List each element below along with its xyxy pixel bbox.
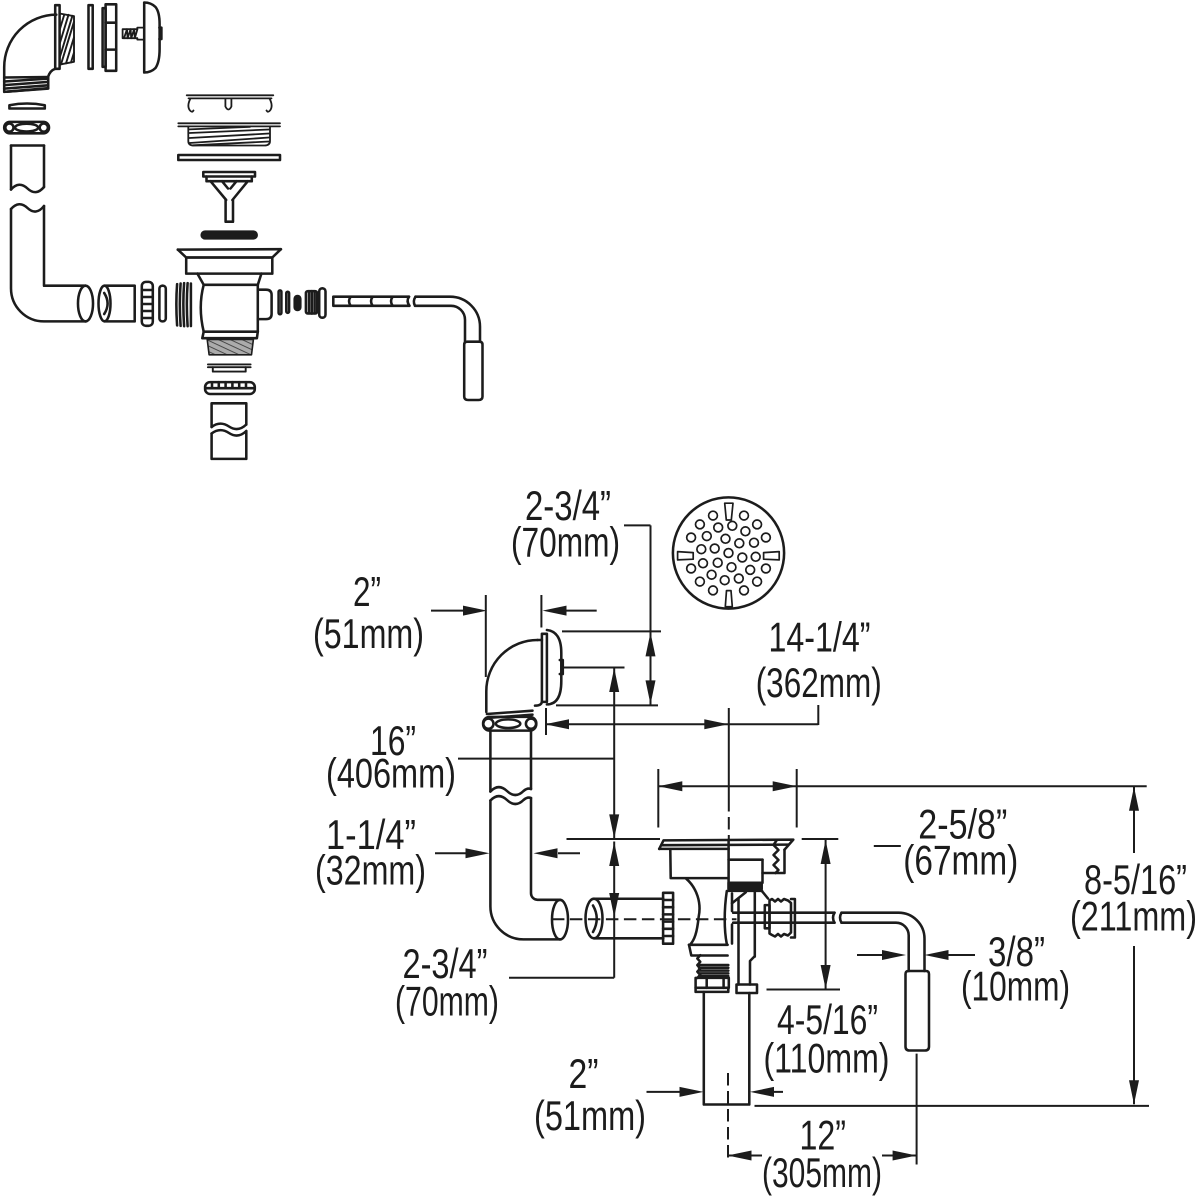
strainer face plate (circle) [673,497,784,608]
svg-text:(70mm): (70mm) [511,519,620,566]
dim 2-3/4 bottom leader [509,842,614,978]
12 arrows [728,1151,752,1161]
elbow fitting body [4,15,56,78]
strainer body threaded boss (left) [176,283,191,326]
small washer B [286,292,289,313]
lever rod bend and handle [414,297,483,400]
body right outline [729,891,768,957]
tailpiece lower [212,430,247,459]
tailpiece (dim view) [704,992,750,1105]
thin friction washer [159,286,165,322]
pipe segment [11,146,44,193]
flat washer [9,104,44,109]
gasket (black) [729,883,762,889]
strainer face holes [687,511,771,595]
svg-text:(51mm): (51mm) [534,1092,646,1139]
dim 2 bottom [647,1091,784,1093]
tailpiece upper [212,403,247,429]
down pipe upper piece [490,731,531,795]
2-3/4 bottom arrows [609,842,619,866]
dim 4-5/16 vertical [825,839,827,990]
lever rod and clamp (dim view) [733,899,841,938]
16 arrows [609,668,619,692]
4-5/16 arrows [821,840,831,864]
cap retaining ring (side view) [103,4,117,71]
dim 16 leader [458,668,614,839]
drain body shoulder [670,840,728,891]
svg-text:14-1/4”: 14-1/4” [769,614,871,661]
basket strainer top plate [187,95,274,111]
pipe nipple [99,286,135,322]
dim 12 [728,1155,917,1157]
friction ring [208,364,251,371]
lever coupling nut [306,291,317,313]
2 top arrows [463,606,487,616]
2-3/4 top arrows [646,632,656,656]
lever rod (segmented) [333,297,409,306]
plunger stem [737,899,758,993]
strainer body flange [178,249,281,273]
elbow lower thread band [4,77,48,92]
down pipe lower piece with bend [490,796,568,939]
14-1/4 arrows [545,719,569,729]
8-5/16 arrows [1129,787,1139,811]
svg-text:(10mm): (10mm) [961,963,1070,1010]
svg-text:(211mm): (211mm) [1070,893,1197,940]
lever bend and handle (dim view) [842,913,930,1051]
cone washer [142,282,153,326]
2-5/8 arrows [658,781,682,791]
body lower threads [697,955,728,978]
lever flange disc [319,288,325,317]
elbow slip nut [483,711,536,731]
dim 14-1/4 [545,723,818,725]
vertical centerline through strainer flange [728,708,730,799]
dim 2-5/8 line (continues as 8-5/16 top extension) [658,785,1146,787]
drain body interior section lines [725,891,746,944]
small washer A (right of body) [279,290,282,314]
elbow (dim view) [486,630,563,712]
2 bottom arrows [680,1087,704,1097]
horizontal centerline through side outlet [552,918,737,920]
flat cup washer [178,155,280,160]
dim 2 top: line and extensions [431,610,597,612]
strainer body outlet boss (right) [258,290,272,319]
dim 1-1/4 [435,852,580,854]
horizontal inlet pipe piece [586,899,664,939]
elbow flange plate [55,5,59,69]
svg-text:2”: 2” [569,1050,599,1097]
crumb cup [178,123,280,145]
tailpiece centerline [727,1073,729,1160]
svg-text:(305mm): (305mm) [762,1149,882,1196]
dome cap [144,3,161,73]
stopper [203,172,255,222]
svg-text:(362mm): (362mm) [756,659,882,706]
svg-text:(67mm): (67mm) [903,837,1018,884]
dim 2-3/4 top: leader and line [624,525,651,705]
slip nut (top view) [4,122,49,133]
strainer face slots [678,503,780,607]
strainer body [197,274,261,339]
svg-text:(51mm): (51mm) [313,610,424,657]
cap screw [123,28,145,40]
svg-text:(406mm): (406mm) [326,750,456,797]
drain body flange [659,840,793,850]
svg-text:(32mm): (32mm) [315,847,426,894]
3/8 arrows [882,950,906,960]
rubber washer (black) [202,232,257,239]
cap thin plate washer [89,5,93,69]
1-1/4 arrows [466,848,490,858]
svg-text:2”: 2” [353,568,381,615]
slip nut lower (dim view) [696,978,729,992]
dim 8-5/16 vertical [1133,787,1135,1105]
small o-ring (black) [295,296,301,310]
drain body outline (S-curve) [686,879,728,956]
elbow threaded outlet [60,14,74,65]
drain body: coupling nut (left, ribbed) [663,893,673,944]
L-shaped drain pipe [11,204,93,321]
svg-text:(70mm): (70mm) [395,978,499,1025]
locknut [205,382,255,394]
dim 3/8 [857,954,975,956]
sink deck cut-away (right) [729,841,785,883]
svg-text:(110mm): (110mm) [764,1035,890,1082]
strainer body lower threads (hatched) [207,339,253,354]
